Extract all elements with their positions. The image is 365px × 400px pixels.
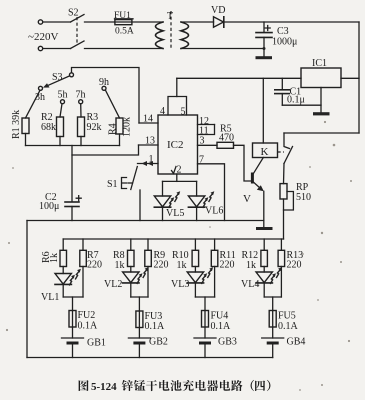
pushbutton S1	[131, 167, 138, 190]
capacitor C2	[65, 201, 79, 203]
resistor R8	[130, 239, 132, 250]
resistor R10	[194, 239, 196, 250]
contact 9h	[102, 86, 106, 90]
relay contact fixed lead	[284, 133, 290, 149]
charge bus (bus2)	[63, 238, 283, 240]
wire IC1 ground pin	[320, 88, 322, 113]
capacitor C3	[263, 22, 265, 32]
pin 3 wire	[198, 144, 218, 146]
right bus vertical	[358, 22, 360, 133]
svg-text:C3: C3	[277, 26, 289, 37]
svg-text:IC2: IC2	[167, 139, 184, 151]
resistor R6	[62, 239, 64, 250]
VL6 emission arrows	[203, 191, 215, 208]
svg-text:0.5A: 0.5A	[115, 27, 134, 37]
svg-text:100μ: 100μ	[39, 201, 59, 212]
battery GB3	[194, 337, 216, 339]
resistor R1	[26, 90, 41, 118]
svg-text:3: 3	[200, 136, 205, 147]
svg-text:GB1: GB1	[87, 338, 106, 349]
svg-text:IC1: IC1	[312, 58, 327, 69]
resistor R5	[217, 142, 234, 148]
svg-text:R4: R4	[108, 123, 119, 135]
VL4 emission arrows	[270, 267, 282, 284]
battery GB1	[62, 337, 84, 339]
capacitor C1	[281, 78, 283, 89]
svg-text:7h: 7h	[76, 90, 86, 101]
wire IC1 input from +V bus	[341, 77, 359, 79]
svg-text:S2: S2	[68, 8, 79, 19]
svg-text:VD: VD	[211, 5, 225, 16]
svg-text:GB3: GB3	[218, 337, 237, 348]
svg-text:510: 510	[296, 192, 311, 203]
resistor R3	[80, 104, 82, 117]
resistor R4	[106, 90, 120, 118]
AC input terminal top	[38, 20, 42, 24]
LED VL3	[194, 267, 196, 273]
VL1 emission arrows	[69, 269, 81, 286]
LED VL2	[130, 267, 132, 273]
wire regulated bus from IC2 pins 4-5 to IC1	[177, 77, 301, 79]
resistor R2	[60, 104, 62, 117]
svg-text:220: 220	[154, 260, 169, 271]
svg-text:VL5: VL5	[166, 208, 184, 219]
switch S2 linkage dashed	[76, 17, 78, 45]
ground below C3	[263, 49, 265, 57]
pin 11 wire loop	[198, 125, 215, 135]
rheostat RP box	[280, 184, 287, 199]
ground below IC1	[313, 112, 330, 115]
svg-text:VL2: VL2	[104, 279, 122, 290]
LED VL6	[196, 181, 198, 196]
switch S2 top blade	[71, 15, 85, 23]
diode VD	[214, 17, 224, 27]
svg-text:0.1A: 0.1A	[78, 321, 99, 332]
svg-text:~220V: ~220V	[28, 31, 58, 43]
transformer T core	[170, 11, 172, 49]
IC1	[301, 68, 341, 88]
ground at emitter	[256, 227, 273, 230]
svg-text:1k: 1k	[246, 260, 256, 271]
LED VL5	[162, 181, 164, 196]
IC2 box	[158, 115, 198, 174]
label + of C2	[76, 196, 81, 201]
pin 7 wire	[198, 164, 225, 221]
pin 2 stub	[176, 174, 178, 181]
resistor R7	[82, 239, 84, 250]
pin 14 wire	[139, 122, 158, 124]
svg-text:0.1A: 0.1A	[278, 321, 299, 332]
svg-text:14: 14	[143, 114, 153, 125]
svg-text:0.1A: 0.1A	[211, 321, 232, 332]
wire AC top to S2	[43, 21, 71, 23]
contact 7h	[79, 100, 83, 104]
wire R5 to transistor base	[234, 145, 252, 181]
wire right bus to contact	[284, 132, 359, 134]
svg-text:R1 39k: R1 39k	[11, 110, 22, 139]
VL3 emission arrows	[201, 267, 213, 284]
transistor V base bar	[251, 173, 254, 184]
svg-text:S3: S3	[52, 72, 63, 83]
svg-text:5-124: 5-124	[91, 381, 117, 393]
svg-text:V: V	[243, 193, 251, 205]
transistor V collector	[253, 158, 263, 175]
svg-text:GB4: GB4	[287, 337, 306, 348]
branch to IC2 pin 13	[72, 145, 139, 155]
svg-text:5h: 5h	[58, 90, 68, 101]
svg-text:FU4: FU4	[211, 311, 229, 322]
LED anode rail from pin 2	[163, 180, 197, 182]
battery negative rail	[27, 357, 273, 359]
label + of C3	[265, 26, 270, 31]
svg-text:9h: 9h	[99, 77, 109, 88]
svg-text:S1: S1	[107, 179, 118, 190]
svg-text:FU5: FU5	[278, 311, 296, 322]
relay K box	[253, 143, 278, 158]
VL2 emission arrows	[137, 267, 149, 284]
svg-text:1: 1	[149, 154, 154, 165]
svg-text:7: 7	[199, 155, 204, 166]
LED VL1	[62, 267, 64, 274]
transformer T primary winding	[156, 22, 164, 49]
wire S3 common to IC2 pin 14	[72, 68, 140, 124]
wire FU1 to transformer	[132, 21, 163, 23]
svg-text:92k: 92k	[87, 122, 102, 133]
transistor V emitter with arrow	[253, 182, 262, 190]
fuse FU2	[69, 311, 76, 328]
svg-text:VL6: VL6	[205, 206, 223, 217]
relay contact blade	[284, 147, 293, 164]
wire AC bottom to S2	[43, 48, 71, 50]
switch S2 bottom blade	[71, 41, 85, 49]
svg-text:0.1A: 0.1A	[145, 321, 166, 332]
resistor R9	[147, 239, 149, 250]
junction channel2	[131, 296, 148, 298]
contact 3h	[39, 86, 43, 90]
wire S2 top to FU1	[85, 21, 115, 23]
svg-text:FU2: FU2	[78, 310, 96, 321]
svg-text:1k: 1k	[177, 260, 187, 271]
battery GB2	[128, 337, 150, 339]
transistor emitter to ground	[263, 191, 265, 227]
AC input terminal bottom	[38, 46, 42, 50]
svg-text:1000μ: 1000μ	[272, 37, 297, 48]
wire VD to C3 node and right bus	[224, 21, 359, 23]
resistor R12	[263, 239, 265, 250]
svg-text:220: 220	[220, 260, 235, 271]
rail under R1-R4	[26, 145, 120, 147]
wire RP to charge bus	[283, 199, 285, 239]
junction channel3	[195, 296, 214, 298]
fuse FU5	[269, 311, 276, 328]
IC2 pins 4-5 bracket	[168, 97, 187, 116]
battery GB4	[262, 337, 284, 339]
svg-text:GB2: GB2	[149, 337, 168, 348]
rheostat RP tap loop	[284, 192, 294, 211]
wire contact to RP	[283, 164, 286, 184]
fuse FU3	[136, 311, 143, 328]
svg-text:5: 5	[181, 107, 186, 118]
VL5 emission arrows	[169, 191, 181, 208]
resistor R13	[280, 239, 282, 250]
contact 5h	[61, 100, 65, 104]
wire secondary top to diode VD	[181, 21, 214, 23]
left bus down	[26, 221, 28, 358]
svg-text:13: 13	[145, 136, 155, 147]
svg-text:120k: 120k	[122, 117, 133, 137]
pin 1 wire with arrows	[138, 163, 159, 165]
svg-text:220: 220	[287, 260, 302, 271]
S1 button cap	[122, 178, 127, 189]
svg-text:FU1: FU1	[114, 11, 131, 21]
pin 13 wire	[139, 144, 159, 146]
fuse FU4	[202, 311, 209, 328]
svg-text:470: 470	[219, 133, 234, 144]
svg-text:K: K	[261, 146, 269, 158]
wire S2 bottom to transformer primary bottom	[85, 48, 164, 50]
junction channel4	[264, 296, 281, 298]
svg-text:1k: 1k	[115, 260, 125, 271]
junction channel1	[63, 296, 83, 298]
pin 12 wire	[198, 124, 215, 126]
svg-text:1k: 1k	[49, 253, 60, 263]
svg-text:0.1μ: 0.1μ	[287, 95, 305, 106]
ground bus (bus1)	[27, 220, 264, 222]
transformer T secondary winding	[181, 22, 189, 49]
svg-text:68k: 68k	[41, 122, 56, 133]
fuse FU1	[115, 20, 132, 25]
svg-text:2: 2	[177, 165, 182, 176]
wire secondary bottom to C3	[181, 48, 264, 50]
resistor R11	[214, 239, 216, 250]
LED VL4	[263, 267, 265, 273]
wire rail down to C2	[71, 146, 73, 202]
switch S3 blade with arrow	[46, 76, 70, 86]
switch S3 common	[70, 73, 74, 77]
svg-text:220: 220	[87, 260, 102, 271]
svg-text:T: T	[167, 11, 173, 22]
svg-text:VL4: VL4	[241, 279, 259, 290]
svg-text:VL1: VL1	[41, 292, 59, 303]
svg-text:VL3: VL3	[171, 279, 189, 290]
dashed link K to contact	[278, 151, 285, 153]
caption chinese text	[79, 380, 271, 391]
svg-text:4: 4	[160, 106, 165, 117]
scan speckles (decorative)	[6, 121, 352, 391]
relay K coil wire	[262, 78, 264, 143]
